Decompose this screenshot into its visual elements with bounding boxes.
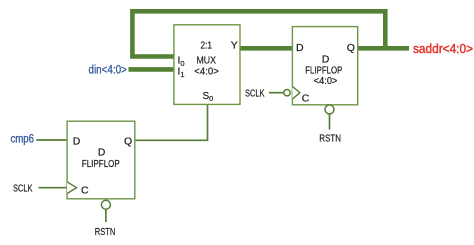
svg-text:SCLK: SCLK bbox=[245, 87, 265, 99]
wire: flip-flop U2 Q output to saddr<4:0> (thick) bbox=[357, 46, 409, 51]
svg-text:<4:0>: <4:0> bbox=[194, 65, 219, 77]
wire: RSTN to flip-flop U2 reset bubble bbox=[329, 114, 331, 130]
pin label: U2 output Q bbox=[347, 42, 355, 54]
net label: RSTN (to U3) bbox=[95, 226, 116, 238]
svg-text:RSTN: RSTN bbox=[319, 133, 341, 145]
svg-text:din<4:0>: din<4:0> bbox=[89, 64, 128, 76]
mux U1 body (2:1 MUX <4:0>) bbox=[174, 25, 240, 105]
svg-text:Q: Q bbox=[124, 135, 132, 147]
svg-text:saddr<4:0>: saddr<4:0> bbox=[413, 41, 473, 56]
svg-text:Q: Q bbox=[347, 42, 355, 54]
label: U2 "D" bbox=[322, 54, 330, 66]
svg-text:SCLK: SCLK bbox=[13, 182, 33, 194]
flip-flop U2 body (D FLIPFLOP <4:0>) bbox=[292, 27, 357, 105]
label: MUX "2:1" bbox=[201, 39, 213, 51]
svg-text:2:1: 2:1 bbox=[201, 39, 213, 51]
flip-flop U2 clock wedge bbox=[292, 86, 300, 99]
net label: din<4:0> (blue input) bbox=[89, 64, 128, 76]
wire: feedback from saddr net to MUX I0 (thick) bbox=[132, 11, 385, 56]
svg-text:D: D bbox=[296, 42, 304, 54]
pin label: U3 input D bbox=[73, 135, 81, 147]
label: MUX "MUX" bbox=[197, 55, 217, 67]
wire: flip-flop U3 Q output to MUX S0 select bbox=[135, 104, 208, 140]
net label: saddr<4:0> (red output) bbox=[413, 41, 473, 56]
wire: SCLK to flip-flop U3 clock bbox=[39, 187, 69, 189]
wire: din<4:0> input to MUX I1 (thick) bbox=[129, 67, 175, 72]
wire: cmp6 input to flip-flop U3 D bbox=[36, 139, 68, 141]
pin label: U3 output Q bbox=[124, 135, 132, 147]
svg-text:<4:0>: <4:0> bbox=[314, 75, 338, 87]
net label: SCLK (to U3) bbox=[13, 182, 33, 194]
pin label: MUX select S0 bbox=[203, 91, 214, 103]
net label: cmp6 (blue input) bbox=[11, 134, 35, 146]
label: U2 "FLIPFLOP" bbox=[305, 65, 342, 77]
wire: RSTN to flip-flop U3 reset bubble bbox=[105, 209, 107, 222]
svg-text:cmp6: cmp6 bbox=[11, 134, 35, 146]
label: U3 "D" bbox=[98, 147, 106, 159]
svg-text:FLIPFLOP: FLIPFLOP bbox=[82, 158, 120, 170]
svg-text:C: C bbox=[81, 184, 89, 196]
pin label: U2 input D bbox=[296, 42, 304, 54]
label: MUX "<4:0>" bbox=[194, 65, 219, 77]
pin label: MUX input I1 bbox=[178, 65, 185, 79]
flip-flop U3 body (D FLIPFLOP) bbox=[67, 121, 135, 199]
wire: SCLK to flip-flop U2 clock bubble bbox=[269, 92, 284, 94]
pin label: U2 clock C bbox=[302, 92, 310, 104]
svg-text:RSTN: RSTN bbox=[95, 226, 116, 238]
svg-text:D: D bbox=[98, 147, 106, 159]
svg-text:C: C bbox=[302, 92, 310, 104]
label: U2 "<4:0>" bbox=[314, 75, 338, 87]
label: U3 "FLIPFLOP" bbox=[82, 158, 120, 170]
flip-flop U3 reset bubble (active-low RSTN) bbox=[101, 200, 110, 209]
flip-flop U2 reset bubble (active-low RSTN) bbox=[325, 105, 334, 114]
pin label: U3 clock C bbox=[81, 184, 89, 196]
net label: SCLK (to U2) bbox=[245, 87, 265, 99]
svg-text:Y: Y bbox=[231, 39, 238, 51]
flip-flop U2 clock inversion bubble bbox=[284, 90, 290, 96]
flip-flop U3 clock wedge bbox=[67, 182, 77, 194]
wire: MUX Y output to flip-flop U2 D input (thick) bbox=[240, 46, 294, 51]
pin label: MUX output Y bbox=[231, 39, 238, 51]
svg-text:D: D bbox=[73, 135, 81, 147]
pin label: MUX input I0 bbox=[178, 54, 185, 68]
net label: RSTN (to U2) bbox=[319, 133, 341, 145]
